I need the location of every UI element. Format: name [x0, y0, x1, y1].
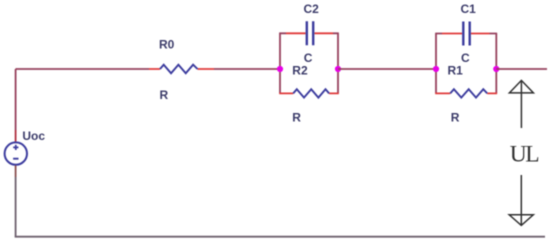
svg-text:C2: C2 — [304, 2, 320, 16]
voltage source Uoc — [5, 142, 27, 164]
wire R0 to box1 — [214, 68, 280, 70]
wire box2 to right terminal — [496, 68, 547, 70]
svg-text:R0: R0 — [159, 38, 175, 52]
node dot box1 right — [335, 66, 341, 72]
capacitor C2 — [286, 21, 333, 45]
wire box1 left edge — [279, 33, 281, 93]
wire box2 right edge — [495, 34, 497, 94]
node dot box2 right — [493, 66, 499, 72]
wire box1 right edge — [337, 33, 339, 93]
svg-text:Uoc: Uoc — [22, 129, 45, 143]
resistor R1 — [435, 89, 497, 97]
wire source top pin — [15, 130, 17, 142]
svg-text:R: R — [451, 111, 460, 125]
node dot box2 left — [433, 66, 439, 72]
wire left vertical lower — [15, 177, 17, 237]
wire box1 to box2 — [338, 68, 436, 70]
wire bottom horizontal — [15, 236, 545, 238]
wire box2 left edge — [435, 34, 437, 94]
wire top from left corner to R0 — [16, 68, 150, 70]
svg-text:R: R — [160, 88, 169, 102]
capacitor C1 — [442, 22, 490, 46]
svg-text:UL: UL — [510, 142, 538, 168]
resistor R0 — [149, 65, 214, 74]
svg-text:R: R — [292, 111, 301, 125]
wire source bottom pin — [15, 165, 17, 177]
arrow down UL — [509, 175, 533, 225]
svg-text:C1: C1 — [461, 2, 477, 16]
wire box1 top edge maroon parts — [279, 32, 339, 34]
svg-text:R1: R1 — [448, 64, 464, 78]
arrow up UL — [509, 80, 533, 128]
resistor R2 — [279, 89, 339, 97]
wire box2 top edge maroon parts — [435, 33, 497, 35]
svg-text:R2: R2 — [292, 64, 308, 78]
wire left vertical upper — [15, 69, 17, 130]
node dot box1 left — [277, 66, 283, 72]
